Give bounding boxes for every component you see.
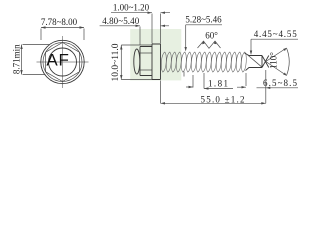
svg-text:110°: 110° <box>269 52 279 69</box>
drill point section <box>245 53 263 71</box>
svg-text:10.0~11.0: 10.0~11.0 <box>111 43 121 81</box>
flute diagonal <box>247 54 263 67</box>
green highlight band <box>130 29 181 80</box>
point cross faces <box>262 56 269 68</box>
svg-text:1.81: 1.81 <box>208 79 228 89</box>
dimension 55.0 +/-1.2 (overall length) <box>161 70 266 103</box>
dimension 1.81 (pitch) <box>184 72 204 89</box>
inner circle <box>49 48 77 76</box>
svg-text:60°: 60° <box>205 31 218 41</box>
outer circle (flange) <box>41 40 84 83</box>
svg-text:AF: AF <box>46 51 69 70</box>
svg-text:55.0 ±1.2: 55.0 ±1.2 <box>201 94 245 104</box>
node center crosshair <box>37 36 89 88</box>
svg-text:4.45~4.55: 4.45~4.55 <box>254 29 298 39</box>
dimension 10.0~11.0 (flange dia, vertical) <box>120 45 122 80</box>
svg-text:4.80~5.40: 4.80~5.40 <box>102 16 140 26</box>
dimension 6.5~8.5 (point length) <box>237 86 298 89</box>
middle circle <box>43 43 82 82</box>
svg-text:6.5~8.5: 6.5~8.5 <box>263 78 298 88</box>
hexagon vertex-up <box>46 43 80 82</box>
threads (coil) <box>161 52 246 72</box>
dimension 8.71min (vertical, left) <box>21 45 23 75</box>
hex head body <box>140 47 152 76</box>
svg-text:7.78~8.00: 7.78~8.00 <box>41 17 78 27</box>
hex head front ellipse <box>134 49 140 74</box>
110 degree angle annotation <box>266 48 287 76</box>
svg-text:8.71min: 8.71min <box>11 44 21 74</box>
hex facet lines <box>140 53 152 70</box>
svg-text:1.00~1.20: 1.00~1.20 <box>113 3 150 13</box>
dimension 7.78~8.00 <box>41 27 84 29</box>
svg-text:5.28~5.46: 5.28~5.46 <box>185 15 222 25</box>
washer flange <box>152 44 161 80</box>
